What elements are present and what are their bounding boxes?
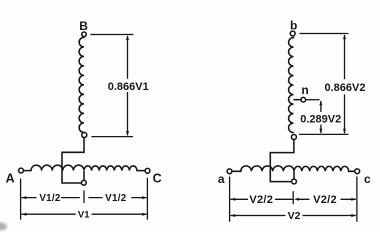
svg-text:n: n xyxy=(301,83,308,97)
svg-text:V2/2: V2/2 xyxy=(313,194,337,206)
svg-text:V1/2: V1/2 xyxy=(105,193,127,204)
svg-text:0.866V2: 0.866V2 xyxy=(325,82,366,94)
svg-text:0.866V1: 0.866V1 xyxy=(108,81,149,93)
svg-text:A: A xyxy=(6,171,15,185)
svg-text:V1: V1 xyxy=(78,209,90,220)
svg-text:C: C xyxy=(153,172,162,186)
svg-text:0.289V2: 0.289V2 xyxy=(300,113,341,125)
svg-text:a: a xyxy=(218,172,225,186)
svg-text:b: b xyxy=(290,19,297,33)
svg-text:B: B xyxy=(79,19,88,33)
svg-text:V2/2: V2/2 xyxy=(249,194,273,206)
svg-text:V1/2: V1/2 xyxy=(39,193,61,204)
svg-text:V2: V2 xyxy=(288,210,301,222)
svg-text:c: c xyxy=(364,172,371,186)
